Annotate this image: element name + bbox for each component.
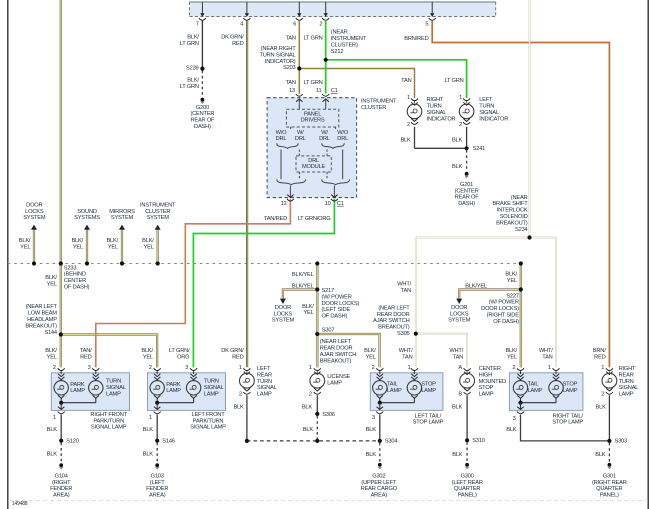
svg-text:(NEAR LEFT: (NEAR LEFT (26, 304, 58, 310)
svg-text:W/: W/ (321, 130, 328, 136)
svg-text:SYSTEM: SYSTEM (147, 215, 170, 221)
svg-text:AREA): AREA) (371, 493, 388, 499)
svg-text:LAMP: LAMP (528, 388, 543, 394)
svg-text:12: 12 (281, 201, 287, 207)
svg-text:YEL: YEL (20, 244, 30, 250)
svg-text:S233: S233 (64, 265, 77, 271)
svg-text:G103: G103 (151, 473, 164, 479)
svg-text:(LEFT REAR: (LEFT REAR (452, 480, 483, 486)
svg-text:BLK/: BLK/ (71, 238, 83, 244)
svg-text:3: 3 (185, 365, 188, 371)
svg-text:BREAKOUT): BREAKOUT) (25, 323, 57, 329)
svg-text:1: 1 (309, 365, 312, 371)
svg-text:STOP LAMP: STOP LAMP (552, 420, 583, 426)
svg-text:DRL: DRL (295, 136, 306, 142)
svg-text:INDICATOR: INDICATOR (479, 116, 508, 122)
svg-text:QUARTER: QUARTER (596, 486, 622, 492)
svg-text:BLK: BLK (143, 452, 154, 458)
svg-text:TURN: TURN (619, 379, 634, 385)
svg-text:MIRRORS: MIRRORS (109, 209, 135, 215)
svg-text:2: 2 (53, 365, 56, 371)
svg-text:2: 2 (319, 22, 322, 28)
svg-text:STOP: STOP (563, 381, 578, 387)
svg-text:BLK/: BLK/ (302, 304, 314, 310)
svg-text:2: 2 (601, 391, 604, 397)
svg-text:LT GRN: LT GRN (444, 78, 463, 84)
svg-text:LEFT: LEFT (257, 366, 271, 372)
svg-text:LOCKS: LOCKS (25, 209, 44, 215)
svg-text:BLK: BLK (303, 427, 314, 433)
svg-text:S212: S212 (331, 49, 344, 55)
svg-text:LOCKS: LOCKS (450, 311, 469, 317)
svg-text:RED: RED (232, 41, 244, 47)
svg-text:BLK: BLK (452, 404, 463, 410)
svg-text:3: 3 (88, 365, 91, 371)
svg-text:TURN SIGNAL: TURN SIGNAL (259, 52, 295, 58)
svg-text:AREA): AREA) (149, 493, 166, 499)
svg-text:MODULE: MODULE (302, 164, 326, 170)
svg-text:LEFT: LEFT (479, 97, 493, 103)
svg-text:AREA): AREA) (53, 493, 70, 499)
svg-text:DRL: DRL (308, 158, 319, 164)
svg-text:LT GRN: LT GRN (180, 84, 199, 90)
svg-text:LICENSE: LICENSE (327, 374, 350, 380)
svg-text:(UPPER LEFT: (UPPER LEFT (361, 480, 397, 486)
svg-text:DK GRN/: DK GRN/ (221, 35, 244, 41)
svg-text:YEL: YEL (108, 244, 118, 250)
svg-text:RIGHT: RIGHT (427, 97, 444, 103)
svg-text:DRIVERS: DRIVERS (301, 118, 325, 124)
svg-text:WHT/: WHT/ (449, 348, 463, 354)
svg-text:YEL: YEL (47, 355, 57, 361)
svg-text:SIGNAL: SIGNAL (106, 385, 126, 391)
svg-text:PARK: PARK (166, 382, 181, 388)
svg-text:TAN: TAN (285, 80, 295, 86)
svg-text:DRL: DRL (319, 136, 330, 142)
svg-text:BLK: BLK (452, 138, 463, 144)
svg-text:TAN: TAN (401, 78, 411, 84)
svg-text:S306: S306 (322, 412, 335, 418)
svg-text:TAN: TAN (453, 355, 463, 361)
svg-text:OF DASH): OF DASH) (64, 285, 90, 291)
svg-text:BLK: BLK (143, 427, 154, 433)
svg-text:TAN: TAN (402, 355, 412, 361)
svg-text:LT GRN: LT GRN (303, 36, 322, 42)
svg-text:CENTER: CENTER (64, 278, 86, 284)
svg-text:(LEFT: (LEFT (150, 480, 166, 486)
svg-text:SYSTEM: SYSTEM (272, 318, 295, 324)
svg-text:WHT/: WHT/ (539, 348, 553, 354)
svg-text:G201: G201 (460, 182, 473, 188)
svg-text:(NEAR: (NEAR (331, 30, 348, 36)
svg-text:C1: C1 (331, 88, 338, 94)
svg-text:AJAR SWITCH: AJAR SWITCH (373, 318, 409, 324)
svg-text:C1: C1 (337, 201, 344, 207)
svg-text:10: 10 (325, 201, 331, 207)
svg-text:LAMP: LAMP (619, 392, 634, 398)
svg-text:PARK/TURN: PARK/TURN (193, 418, 224, 424)
svg-text:SOLENOID: SOLENOID (500, 214, 528, 220)
svg-text:BLK: BLK (233, 404, 244, 410)
svg-text:TURN: TURN (106, 379, 121, 385)
svg-text:SYSTEMS: SYSTEMS (74, 215, 100, 221)
svg-text:CLUSTER: CLUSTER (145, 209, 170, 215)
svg-text:(CENTER: (CENTER (455, 188, 479, 194)
svg-text:CLUSTER: CLUSTER (361, 105, 386, 111)
svg-text:LAMP: LAMP (421, 388, 436, 394)
svg-text:ORG: ORG (177, 355, 189, 361)
svg-text:TAIL: TAIL (528, 381, 539, 387)
svg-text:4: 4 (240, 22, 243, 28)
svg-text:1: 1 (149, 415, 152, 421)
svg-text:(RIGHT SIDE: (RIGHT SIDE (487, 313, 520, 319)
svg-text:G300: G300 (461, 473, 474, 479)
svg-text:BREAKOUT): BREAKOUT) (496, 220, 528, 226)
svg-text:5: 5 (425, 22, 428, 28)
svg-text:A: A (458, 365, 462, 371)
svg-text:SYSTEM: SYSTEM (23, 215, 46, 221)
svg-text:11: 11 (316, 88, 322, 94)
svg-text:DK GRN/: DK GRN/ (221, 348, 244, 354)
svg-text:REAR DOOR: REAR DOOR (377, 312, 410, 318)
svg-text:LAMP: LAMP (257, 392, 272, 398)
svg-text:1: 1 (601, 365, 604, 371)
svg-text:B: B (458, 391, 462, 397)
svg-text:MOUNTED: MOUNTED (479, 379, 506, 385)
svg-text:DOOR: DOOR (26, 202, 42, 208)
svg-text:DOOR: DOOR (451, 305, 467, 311)
svg-text:STOP: STOP (479, 385, 494, 391)
svg-text:2: 2 (512, 365, 515, 371)
svg-text:SIGNAL: SIGNAL (257, 385, 277, 391)
svg-text:AJAR SWITCH: AJAR SWITCH (320, 352, 356, 358)
svg-text:HIGH: HIGH (479, 372, 493, 378)
svg-text:TURN: TURN (257, 379, 272, 385)
svg-text:REAR OF: REAR OF (455, 195, 480, 201)
svg-text:BLK/: BLK/ (505, 272, 517, 278)
svg-text:LEFT TAIL/: LEFT TAIL/ (415, 413, 442, 419)
svg-text:PANEL: PANEL (304, 111, 321, 117)
svg-text:S144: S144 (44, 330, 57, 336)
svg-text:S304: S304 (385, 439, 398, 445)
svg-text:TAIL: TAIL (387, 381, 398, 387)
svg-text:2: 2 (149, 365, 152, 371)
svg-text:OF DASH): OF DASH) (493, 319, 519, 325)
svg-text:S227: S227 (506, 293, 519, 299)
svg-text:LT GRN/: LT GRN/ (169, 348, 190, 354)
svg-text:13: 13 (289, 88, 295, 94)
svg-text:TURN: TURN (479, 104, 494, 110)
svg-text:149488: 149488 (12, 501, 28, 507)
svg-text:(NEAR RIGHT: (NEAR RIGHT (261, 46, 296, 52)
svg-text:G301: G301 (603, 473, 616, 479)
svg-text:(BEHIND: (BEHIND (64, 272, 86, 278)
svg-text:BLK/: BLK/ (106, 238, 118, 244)
svg-text:(W/ POWER: (W/ POWER (489, 300, 519, 306)
svg-text:(NEAR: (NEAR (511, 195, 528, 201)
svg-text:REAR CARGO: REAR CARGO (361, 486, 398, 492)
svg-text:LOW BEAM: LOW BEAM (28, 311, 58, 317)
svg-text:W/O: W/O (276, 130, 288, 136)
svg-text:BLK: BLK (595, 452, 606, 458)
svg-text:W/: W/ (297, 130, 304, 136)
svg-text:LAMP: LAMP (563, 388, 578, 394)
svg-text:S310: S310 (472, 438, 485, 444)
svg-text:BLK/: BLK/ (364, 348, 376, 354)
svg-text:REAR OF: REAR OF (190, 118, 215, 124)
svg-text:TAN/: TAN/ (80, 348, 92, 354)
svg-text:(RIGHT REAR: (RIGHT REAR (592, 480, 627, 486)
svg-text:2: 2 (239, 391, 242, 397)
svg-text:(NEAR LEFT: (NEAR LEFT (320, 339, 352, 345)
svg-text:RIGHT: RIGHT (619, 366, 636, 372)
svg-text:PARK: PARK (70, 382, 85, 388)
svg-text:BLK/: BLK/ (45, 275, 57, 281)
svg-text:(RIGHT: (RIGHT (52, 480, 71, 486)
svg-text:PARK/TURN: PARK/TURN (93, 418, 124, 424)
svg-text:BLK: BLK (506, 427, 517, 433)
svg-text:LAMP: LAMP (106, 391, 121, 397)
svg-text:BLK: BLK (302, 404, 313, 410)
svg-text:REAR: REAR (257, 372, 272, 378)
svg-text:TURN: TURN (204, 379, 219, 385)
svg-text:REAR: REAR (619, 372, 634, 378)
svg-text:SIGNAL LAMP: SIGNAL LAMP (190, 425, 226, 431)
svg-text:INSTRUMENT: INSTRUMENT (140, 202, 176, 208)
svg-text:OF DASH): OF DASH) (322, 314, 348, 320)
svg-text:QUARTER: QUARTER (454, 486, 480, 492)
svg-text:BLK: BLK (400, 138, 411, 144)
svg-text:REAR DOOR: REAR DOOR (320, 346, 353, 352)
svg-text:RIGHT FRONT: RIGHT FRONT (90, 412, 127, 418)
svg-text:YEL: YEL (303, 310, 313, 316)
svg-text:RED: RED (80, 355, 92, 361)
svg-text:YEL: YEL (144, 244, 154, 250)
svg-text:CENTER: CENTER (479, 366, 501, 372)
svg-text:1: 1 (548, 365, 551, 371)
svg-text:RED: RED (232, 355, 244, 361)
svg-text:RIGHT TAIL/: RIGHT TAIL/ (553, 413, 584, 419)
svg-text:PANEL): PANEL) (600, 493, 619, 499)
svg-text:BRN/RED: BRN/RED (404, 36, 428, 42)
svg-text:G104: G104 (55, 473, 68, 479)
svg-text:DASH): DASH) (194, 124, 211, 130)
svg-text:SIGNAL: SIGNAL (204, 385, 224, 391)
svg-text:FENDER: FENDER (50, 486, 72, 492)
svg-text:DASH): DASH) (458, 201, 475, 207)
svg-text:BLK/: BLK/ (141, 348, 153, 354)
svg-text:2: 2 (309, 391, 312, 397)
svg-text:SIGNAL LAMP: SIGNAL LAMP (91, 425, 127, 431)
svg-text:BLK: BLK (47, 427, 58, 433)
svg-text:INSTRUMENT: INSTRUMENT (361, 98, 397, 104)
svg-text:TAN: TAN (401, 288, 411, 294)
svg-text:LAMP: LAMP (479, 392, 494, 398)
svg-text:S239: S239 (186, 65, 199, 71)
svg-text:DOOR: DOOR (275, 305, 291, 311)
svg-text:S307: S307 (322, 327, 335, 333)
svg-text:S303: S303 (615, 439, 628, 445)
svg-text:7: 7 (196, 22, 199, 28)
svg-text:BREAKOUT): BREAKOUT) (320, 358, 352, 364)
svg-text:YEL: YEL (507, 278, 517, 284)
svg-text:TAN: TAN (542, 355, 552, 361)
svg-text:TAN/RED: TAN/RED (264, 216, 287, 222)
svg-text:INTERLOCK: INTERLOCK (497, 208, 528, 214)
svg-text:WHT/: WHT/ (399, 348, 413, 354)
svg-text:LEFT FRONT: LEFT FRONT (192, 412, 226, 418)
svg-text:LAMP: LAMP (204, 391, 219, 397)
svg-text:INSTRUMENT: INSTRUMENT (331, 36, 367, 42)
svg-text:YEL: YEL (507, 355, 517, 361)
svg-text:2: 2 (407, 122, 410, 128)
svg-text:(LEFT SIDE: (LEFT SIDE (322, 307, 351, 313)
svg-text:W/O: W/O (337, 130, 349, 136)
svg-text:BLK: BLK (366, 427, 377, 433)
svg-text:2: 2 (372, 365, 375, 371)
svg-text:SIGNAL: SIGNAL (619, 385, 639, 391)
svg-text:G302: G302 (372, 473, 385, 479)
svg-text:RED: RED (594, 355, 606, 361)
svg-text:LT GRN: LT GRN (303, 80, 322, 86)
svg-text:BREAKOUT): BREAKOUT) (378, 325, 410, 331)
svg-text:LAMP: LAMP (327, 381, 342, 387)
svg-text:(W/ POWER: (W/ POWER (322, 294, 352, 300)
svg-text:(NEAR LEFT: (NEAR LEFT (378, 305, 410, 311)
svg-text:YEL: YEL (73, 244, 83, 250)
svg-text:DRL: DRL (337, 136, 348, 142)
svg-text:INDICATOR: INDICATOR (427, 116, 456, 122)
svg-text:SOUND: SOUND (77, 209, 97, 215)
svg-text:YEL: YEL (366, 355, 376, 361)
svg-text:1: 1 (53, 415, 56, 421)
svg-text:BLK/: BLK/ (45, 348, 57, 354)
svg-text:STOP LAMP: STOP LAMP (413, 420, 444, 426)
svg-text:YEL: YEL (47, 281, 57, 287)
svg-text:PANEL): PANEL) (458, 493, 477, 499)
svg-text:DOOR LOCKS): DOOR LOCKS) (322, 301, 360, 307)
svg-text:BLK/: BLK/ (187, 78, 199, 84)
svg-text:1: 1 (407, 95, 410, 101)
svg-text:FENDER: FENDER (146, 486, 168, 492)
svg-text:BLK: BLK (452, 164, 463, 170)
svg-text:SIGNAL: SIGNAL (479, 110, 499, 116)
svg-text:SYSTEM: SYSTEM (448, 318, 471, 324)
svg-text:BLK: BLK (47, 452, 58, 458)
svg-text:TAN: TAN (285, 36, 295, 42)
svg-text:3: 3 (513, 416, 516, 422)
svg-text:1: 1 (459, 95, 462, 101)
svg-text:INDICATOR): INDICATOR) (265, 59, 296, 65)
svg-text:BRN/: BRN/ (593, 348, 606, 354)
svg-text:S234: S234 (515, 227, 528, 233)
svg-text:S217: S217 (322, 288, 335, 294)
svg-text:BLK: BLK (366, 452, 377, 458)
svg-text:LT GRN: LT GRN (180, 41, 199, 47)
svg-text:1: 1 (408, 365, 411, 371)
svg-text:1: 1 (239, 365, 242, 371)
svg-text:SIGNAL: SIGNAL (427, 110, 447, 116)
svg-text:BRAKE SHIFT: BRAKE SHIFT (492, 201, 528, 207)
svg-text:S203: S203 (283, 65, 296, 71)
svg-text:BLK/: BLK/ (505, 348, 517, 354)
svg-text:BLK: BLK (452, 452, 463, 458)
svg-text:(CENTER: (CENTER (190, 111, 214, 117)
svg-text:LAMP: LAMP (166, 388, 181, 394)
svg-text:BLK/YEL: BLK/YEL (292, 272, 314, 278)
svg-text:BLK/YEL: BLK/YEL (465, 284, 487, 290)
svg-text:S305: S305 (397, 331, 410, 337)
svg-text:STOP: STOP (421, 381, 436, 387)
svg-text:G200: G200 (196, 105, 209, 111)
svg-text:BLK: BLK (596, 404, 607, 410)
svg-text:2: 2 (459, 122, 462, 128)
svg-text:TURN: TURN (427, 104, 442, 110)
svg-text:LT GRN/ORG: LT GRN/ORG (298, 216, 331, 222)
svg-text:SYSTEM: SYSTEM (111, 215, 134, 221)
svg-text:DRL: DRL (276, 136, 287, 142)
svg-text:LAMP: LAMP (70, 388, 85, 394)
svg-text:YEL: YEL (143, 355, 153, 361)
svg-text:BLK/: BLK/ (142, 238, 154, 244)
svg-text:CLUSTER): CLUSTER) (331, 42, 358, 48)
svg-text:BLK/YEL: BLK/YEL (292, 284, 314, 290)
svg-text:S120: S120 (66, 439, 79, 445)
svg-text:BLK/: BLK/ (187, 35, 199, 41)
svg-text:S146: S146 (162, 439, 175, 445)
svg-text:LOCKS: LOCKS (274, 311, 293, 317)
svg-text:HEADLAMP: HEADLAMP (27, 317, 57, 323)
svg-text:6: 6 (293, 22, 296, 28)
svg-text:LAMP: LAMP (387, 388, 402, 394)
svg-text:S241: S241 (473, 146, 486, 152)
svg-text:DOOR LOCKS): DOOR LOCKS) (481, 306, 519, 312)
svg-text:BLK/: BLK/ (19, 238, 31, 244)
svg-text:3: 3 (372, 415, 375, 421)
svg-text:WHT/: WHT/ (397, 281, 411, 287)
